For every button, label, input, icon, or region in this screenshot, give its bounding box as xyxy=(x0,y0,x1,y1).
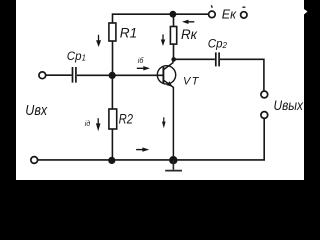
ground xyxy=(165,160,182,170)
wire top rail xyxy=(113,13,209,15)
node top junction (Rk/rail) xyxy=(170,11,177,18)
svg-text:Cр2: Cр2 xyxy=(208,39,228,51)
capacitor Cp2 plates xyxy=(216,52,219,66)
terminal Ek minus xyxy=(241,12,247,18)
ground stub xyxy=(172,160,174,170)
capacitor Cp1 plates xyxy=(73,67,76,83)
svg-text:iд: iд xyxy=(85,120,91,128)
wire Cp1 to base xyxy=(77,74,163,76)
wire collector to Cp2 xyxy=(174,58,215,60)
terminal Uvyx bottom xyxy=(261,112,268,119)
node emitter/ground junction xyxy=(169,156,177,164)
svg-text:Eк: Eк xyxy=(222,8,237,22)
svg-text:Rк: Rк xyxy=(181,27,198,42)
arrow current R1 down xyxy=(96,35,101,47)
node R2 bottom junction xyxy=(108,157,115,164)
wire Rk bottom lead xyxy=(173,44,175,59)
node collector junction xyxy=(171,57,176,62)
arrow id down (R2) xyxy=(96,118,101,131)
arrow ie down (emitter current) xyxy=(162,117,166,128)
wire Rk top lead xyxy=(173,14,175,26)
white notch in right bar xyxy=(304,9,308,15)
transistor body circle xyxy=(157,66,175,84)
transistor collector lead xyxy=(164,59,173,69)
transistor emitter arrowhead xyxy=(167,81,173,86)
svg-text:R1: R1 xyxy=(120,26,137,41)
transistor emitter lead / wire to ground xyxy=(164,80,174,156)
svg-text:R2: R2 xyxy=(119,111,134,127)
resistor R2 xyxy=(109,109,117,129)
wire R1 bottom lead xyxy=(112,41,114,76)
terminal Ek plus xyxy=(209,11,216,18)
wire input terminal to Cp1 xyxy=(46,74,72,76)
wire R2 bottom lead xyxy=(111,129,113,160)
wire R2 top lead xyxy=(111,76,113,110)
transistor VT xyxy=(157,59,175,156)
svg-text:Cр1: Cр1 xyxy=(67,51,86,63)
svg-text:Uвх: Uвх xyxy=(25,102,47,119)
transistor base bar xyxy=(162,67,164,83)
right black bar xyxy=(304,0,320,180)
arrow current Rk down xyxy=(161,34,165,46)
resistor Rk xyxy=(170,27,176,45)
arrow ib right (base) xyxy=(137,66,150,70)
wire R1 top lead xyxy=(112,13,114,23)
terminal Uvx top xyxy=(39,72,46,79)
ground bar xyxy=(165,170,182,172)
resistor R1 xyxy=(109,23,116,41)
terminal Uvx bottom xyxy=(31,157,38,164)
dash above Ek minus xyxy=(242,6,245,8)
arrow ik left (top) xyxy=(182,20,194,24)
svg-text:VT: VT xyxy=(183,75,200,87)
tick above Ek plus xyxy=(210,5,213,8)
terminal Uvyx top xyxy=(261,91,268,98)
wire Cp2 to corner and down to output terminal xyxy=(220,59,264,91)
wire lower output terminal down, bottom rail to left terminal xyxy=(38,119,264,160)
svg-text:Uвых: Uвых xyxy=(274,97,304,113)
arrow ie right (bottom) xyxy=(136,147,149,151)
left black bar xyxy=(0,0,16,180)
node base junction xyxy=(109,72,116,79)
